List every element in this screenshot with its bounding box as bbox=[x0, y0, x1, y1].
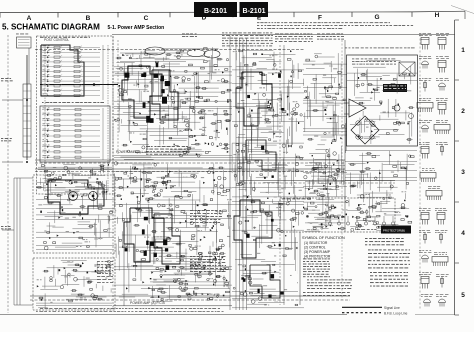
svg-text:A: A bbox=[27, 15, 32, 22]
svg-text:B: B bbox=[86, 15, 91, 22]
svg-text:B.F.B. Loop Line: B.F.B. Loop Line bbox=[384, 311, 408, 315]
svg-text:4: 4 bbox=[461, 230, 465, 237]
svg-text:5: 5 bbox=[461, 292, 465, 299]
svg-text:H: H bbox=[435, 12, 440, 19]
svg-text:POWER AMP (A) P.C.B: POWER AMP (A) P.C.B bbox=[130, 301, 165, 305]
svg-text:(1) SELECTOR: (1) SELECTOR bbox=[304, 241, 328, 245]
svg-text:C: C bbox=[144, 15, 149, 22]
svg-text:B-2101: B-2101 bbox=[204, 8, 227, 15]
svg-text:POST CONTROL: POST CONTROL bbox=[44, 38, 69, 42]
svg-text:POWER AMP (B) L-ch: POWER AMP (B) L-ch bbox=[116, 150, 148, 154]
svg-text:G: G bbox=[374, 14, 379, 21]
svg-text:PROTECTOR(B): PROTECTOR(B) bbox=[383, 228, 405, 232]
svg-text:(4) PROTECTOR: (4) PROTECTOR bbox=[304, 254, 331, 258]
svg-text:3: 3 bbox=[461, 169, 465, 176]
svg-text:SYMBOL OF FUNCTION: SYMBOL OF FUNCTION bbox=[302, 236, 345, 240]
svg-text:2: 2 bbox=[461, 108, 465, 115]
svg-text:1: 1 bbox=[461, 47, 465, 54]
svg-text:F: F bbox=[318, 14, 322, 21]
svg-text:5. SCHAMATIC DIAGRAM: 5. SCHAMATIC DIAGRAM bbox=[2, 23, 100, 32]
svg-text:B-2101: B-2101 bbox=[243, 8, 266, 15]
svg-text:Signal Line: Signal Line bbox=[384, 306, 400, 310]
svg-text:5-1. Power AMP Section: 5-1. Power AMP Section bbox=[108, 25, 165, 31]
svg-text:(3) POWER AMP: (3) POWER AMP bbox=[304, 250, 331, 254]
svg-text:(2) CONTROL: (2) CONTROL bbox=[304, 245, 326, 249]
